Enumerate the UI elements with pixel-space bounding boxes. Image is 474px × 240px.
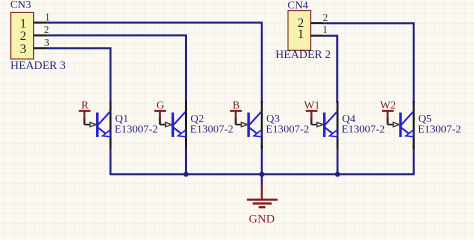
ground xyxy=(247,174,278,207)
svg-text:E13007-2: E13007-2 xyxy=(115,123,158,135)
wire Q3 emitter drop xyxy=(261,145,263,174)
svg-text:E13007-2: E13007-2 xyxy=(190,123,233,135)
net label G wire stub xyxy=(154,111,171,127)
svg-text:3: 3 xyxy=(44,38,49,49)
svg-text:1: 1 xyxy=(323,25,328,36)
CN3 pin 1 stub xyxy=(33,22,47,24)
transistor Q5 xyxy=(401,101,414,149)
wire Q4 emitter drop xyxy=(337,145,339,174)
svg-text:CN4: CN4 xyxy=(288,0,309,12)
CN3 pin 2 stub xyxy=(33,34,47,36)
svg-text:HEADER 2: HEADER 2 xyxy=(276,49,332,61)
wire CN4 pin1 to Q4 collector xyxy=(323,36,337,103)
CN4 pin 1 stub xyxy=(311,35,323,37)
svg-text:HEADER 3: HEADER 3 xyxy=(10,60,66,72)
net label W1 wire stub xyxy=(306,111,323,127)
svg-text:1: 1 xyxy=(45,12,50,23)
svg-text:G: G xyxy=(156,100,164,112)
svg-text:W1: W1 xyxy=(304,100,320,112)
wire CN3 pin2 to Q2 collector xyxy=(48,35,186,103)
net label W2 wire stub xyxy=(382,111,399,127)
wire emitter bus xyxy=(111,145,414,174)
svg-text:E13007-2: E13007-2 xyxy=(418,123,461,135)
wire CN3 pin3 to Q1 collector xyxy=(48,48,111,103)
svg-text:B: B xyxy=(233,100,240,112)
svg-text:1: 1 xyxy=(298,26,305,41)
junction at Q2 emitter on bus xyxy=(184,172,189,177)
svg-text:2: 2 xyxy=(44,25,49,36)
svg-text:CN3: CN3 xyxy=(10,0,31,11)
svg-text:W2: W2 xyxy=(380,100,396,112)
junction at Q3 emitter on bus xyxy=(259,172,264,177)
transistor Q2 xyxy=(173,101,186,149)
wire Q2 emitter drop xyxy=(185,145,187,174)
junction at Q4 emitter on bus xyxy=(335,172,340,177)
net label B wire stub xyxy=(230,111,247,127)
svg-text:3: 3 xyxy=(20,41,27,56)
svg-text:R: R xyxy=(81,100,89,112)
transistor Q1 xyxy=(97,101,110,149)
connector CN4 body xyxy=(288,11,311,51)
CN4 pin 2 stub xyxy=(311,22,323,24)
transistor Q3 xyxy=(249,101,262,149)
transistor Q4 xyxy=(324,101,337,149)
wire CN4 pin2 to Q5 collector xyxy=(323,23,414,103)
connector CN3 body xyxy=(11,12,34,59)
svg-text:2: 2 xyxy=(323,13,328,24)
svg-text:E13007-2: E13007-2 xyxy=(266,123,309,135)
svg-text:GND: GND xyxy=(249,212,275,226)
svg-text:E13007-2: E13007-2 xyxy=(342,123,385,135)
wire CN3 pin1 to Q3 collector xyxy=(48,23,262,103)
CN3 pin 3 stub xyxy=(33,47,47,49)
net label R wire stub xyxy=(79,111,96,127)
